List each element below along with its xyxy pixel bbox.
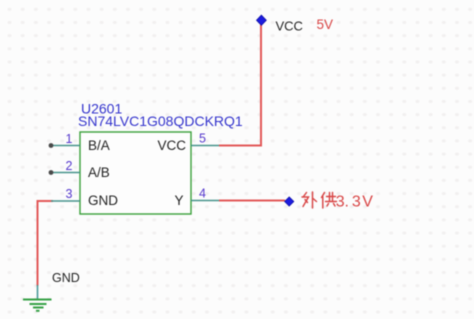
- svg-text:Y: Y: [174, 193, 183, 208]
- svg-text:GND: GND: [88, 193, 118, 208]
- svg-text:SN74LVC1G08QDCKRQ1: SN74LVC1G08QDCKRQ1: [78, 113, 243, 129]
- svg-text:3: 3: [352, 194, 361, 211]
- svg-text:A/B: A/B: [88, 165, 110, 180]
- svg-text:VCC: VCC: [276, 19, 303, 34]
- svg-text:5V: 5V: [317, 17, 334, 32]
- svg-text:5: 5: [199, 132, 206, 146]
- svg-text:3: 3: [66, 187, 73, 201]
- svg-text:4: 4: [199, 187, 206, 201]
- svg-text:B/A: B/A: [88, 138, 110, 153]
- svg-text:GND: GND: [52, 271, 80, 285]
- svg-text:V: V: [362, 194, 373, 211]
- svg-text:VCC: VCC: [157, 138, 186, 153]
- svg-text:.: .: [345, 194, 349, 211]
- svg-text:1: 1: [66, 132, 73, 146]
- svg-text:2: 2: [66, 159, 73, 173]
- svg-text:3: 3: [336, 194, 345, 211]
